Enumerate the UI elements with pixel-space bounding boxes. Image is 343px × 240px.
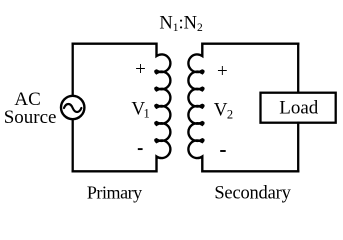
wire: primary loop top (node +V1 side) bbox=[72, 43, 157, 45]
AC source VS1 (circle with sine) bbox=[61, 96, 84, 119]
svg-text:Primary: Primary bbox=[87, 182, 142, 202]
resistor/load RL: load box bbox=[261, 93, 336, 123]
inductor L2: transformer secondary winding bbox=[188, 43, 203, 173]
svg-text:V1: V1 bbox=[131, 98, 149, 120]
svg-text:N1:N2: N1:N2 bbox=[159, 14, 203, 34]
wire: primary loop bottom return bbox=[72, 170, 157, 172]
wire: primary loop left vertical through source bbox=[72, 43, 74, 173]
svg-text:Secondary: Secondary bbox=[214, 183, 291, 203]
wire: secondary loop right vertical lower (from load) bbox=[297, 122, 299, 173]
label: - polarity primary bbox=[138, 148, 143, 150]
svg-text:V2: V2 bbox=[214, 100, 233, 122]
svg-text:+: + bbox=[217, 61, 228, 82]
label: AC Source bbox=[4, 89, 57, 128]
inductor L1: transformer primary winding bbox=[155, 43, 170, 173]
wire: secondary loop bottom return bbox=[202, 170, 299, 172]
svg-text:Source: Source bbox=[4, 107, 57, 128]
wire: secondary loop right vertical upper (to load) bbox=[297, 43, 299, 94]
svg-text:+: + bbox=[135, 59, 146, 80]
svg-text:Load: Load bbox=[279, 98, 319, 119]
wire: secondary loop top bbox=[202, 43, 299, 45]
label: - polarity secondary bbox=[220, 150, 226, 152]
